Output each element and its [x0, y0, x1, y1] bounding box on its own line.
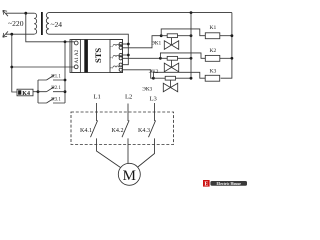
- node dot line2: [10, 33, 13, 36]
- svg-text:3: 3: [110, 67, 114, 69]
- wire K2 right: [220, 57, 232, 59]
- wire L1 down: [96, 103, 98, 121]
- relay K2: [205, 55, 220, 61]
- relay K3: [205, 75, 220, 81]
- rail 24V mid vertical: [190, 13, 192, 79]
- svg-text:K2: K2: [210, 48, 217, 54]
- valve EK1 bowtie: [164, 41, 178, 50]
- wire L1 lower: [97, 138, 121, 167]
- terminal arrow bottom ~220: [3, 31, 8, 37]
- node dot right bus row2: [64, 90, 67, 93]
- wire L3 down: [154, 103, 156, 121]
- valve EK1 stem: [171, 38, 173, 45]
- node dot EK2 junction: [159, 57, 162, 60]
- node dot EK3 rail: [190, 77, 193, 80]
- node dot EK2 rail: [190, 57, 193, 60]
- wire K1 right: [220, 35, 232, 37]
- wire EK2 right to rail: [178, 57, 192, 59]
- output 1 terminal circles: [119, 42, 122, 45]
- STS box: [70, 40, 123, 73]
- wire EK3 bypass to K3: [153, 72, 205, 78]
- svg-text:Electric House: Electric House: [217, 182, 242, 186]
- node dot EK3 junction: [152, 77, 155, 80]
- wire STS out2 to EK2: [123, 57, 161, 59]
- wire 220 line2 bottom: [6, 33, 34, 35]
- node dot right bus row1: [64, 79, 67, 82]
- output unit 1 coil: [113, 44, 122, 46]
- contact K4.2 blade: [122, 120, 129, 137]
- node dot STS common 2: [127, 54, 130, 57]
- svg-text:K3.1: K3.1: [51, 97, 61, 102]
- output unit 3 coil: [113, 66, 122, 68]
- node dot rail191 top: [190, 11, 193, 14]
- valve EK2 stem: [171, 60, 173, 67]
- relay K4 box: [17, 89, 33, 96]
- node dot K1 rail: [231, 34, 234, 37]
- wire EK3 left: [153, 77, 165, 79]
- output 2 terminal circles: [119, 53, 122, 56]
- wire EK1 right to rail: [178, 35, 192, 37]
- wire 220 line1 drop to STS A-input: [26, 13, 75, 42]
- wire STS A-bottom to line2: [12, 66, 75, 68]
- valve EK3 bowtie: [163, 83, 177, 92]
- svg-text:K3: K3: [210, 68, 217, 74]
- wire 24V top long to right: [49, 12, 232, 14]
- contact K2.1: [38, 87, 65, 92]
- svg-text:E: E: [204, 182, 208, 188]
- wire stub common2: [123, 54, 129, 56]
- output 3 terminal circles: [119, 63, 122, 66]
- wire EK3 right to rail: [176, 77, 192, 79]
- svg-text:ЭК1: ЭК1: [151, 41, 161, 47]
- wire EK2 bypass to K2: [160, 53, 205, 58]
- terminal circle A top: [74, 41, 78, 45]
- motor M circle: [118, 163, 140, 185]
- node dot STS common 1: [127, 43, 130, 46]
- svg-text:L1: L1: [94, 93, 101, 100]
- contact K4.3 blade: [149, 120, 156, 137]
- STS A-column: [72, 40, 81, 73]
- node dot at contacts bus top: [64, 40, 67, 43]
- svg-text:STS: STS: [93, 48, 103, 63]
- solenoid EK1: [167, 34, 177, 38]
- wire L2 down: [127, 104, 129, 122]
- wire L2 lower: [127, 138, 129, 163]
- wire EK1 left: [161, 35, 167, 37]
- svg-text:ЭК3: ЭК3: [142, 87, 152, 93]
- terminal circle A bottom: [74, 65, 78, 69]
- K4 inner bar: [18, 90, 21, 94]
- contacts right bus: [64, 42, 66, 103]
- transformer T1 primary coil: [34, 13, 36, 34]
- svg-text:K1: K1: [210, 25, 217, 31]
- rail 24V right vertical: [221, 13, 232, 79]
- svg-text:1: 1: [110, 46, 114, 48]
- svg-text:K4.2: K4.2: [111, 128, 123, 134]
- wire K4 right: [33, 91, 38, 93]
- svg-text:K4.1: K4.1: [80, 128, 92, 134]
- logo dark bar Electric House: [210, 181, 247, 186]
- node dot EK1 rail: [190, 34, 193, 37]
- svg-text:K4.3: K4.3: [138, 128, 150, 134]
- transformer core: [41, 12, 43, 35]
- contacts left bus: [37, 80, 39, 103]
- node dot line1: [24, 12, 27, 15]
- svg-text:K1.1: K1.1: [51, 74, 61, 79]
- svg-text:A1 A2: A1 A2: [74, 49, 80, 63]
- svg-text:~220: ~220: [8, 19, 24, 28]
- logo red square E: [203, 180, 210, 187]
- contact K1.1: [38, 75, 65, 80]
- wire STS out3 to EK3: [123, 70, 154, 78]
- node dot A-bottom branch: [10, 66, 13, 69]
- svg-text:K2.1: K2.1: [51, 86, 61, 91]
- valve EK2 bowtie: [164, 63, 178, 72]
- svg-text:K4: K4: [22, 91, 30, 97]
- svg-text:2: 2: [110, 57, 114, 59]
- wire STS out1 to EK1: [123, 36, 162, 48]
- wire EK1 bypass to K1: [161, 29, 205, 36]
- STS output column: [110, 40, 123, 73]
- svg-text:~24: ~24: [51, 20, 63, 29]
- svg-text:L3: L3: [150, 95, 158, 102]
- node dot EK1 junction: [160, 34, 163, 37]
- solenoid EK3: [165, 76, 175, 80]
- STS internal bar: [84, 40, 88, 73]
- wire EK2 left: [160, 57, 167, 59]
- node dot K2 rail: [231, 57, 234, 60]
- wire L3 lower: [138, 138, 155, 167]
- valve EK3 stem: [170, 80, 172, 87]
- dashed motor box: [71, 112, 174, 145]
- transformer T1 secondary coil: [46, 13, 49, 35]
- wire 220 line2 drop to K4: [12, 34, 17, 92]
- wire 24V bottom to STS common: [49, 34, 128, 64]
- svg-text:L2: L2: [125, 93, 132, 100]
- terminal arrow top ~220: [3, 10, 8, 16]
- contact K3.1: [38, 98, 65, 103]
- contact K4.1 blade: [91, 120, 98, 137]
- wire stub common1: [123, 43, 129, 45]
- wire 220 line1 top: [6, 12, 34, 14]
- output unit 2 coil: [113, 55, 122, 57]
- node dot K4 bus: [37, 90, 40, 93]
- relay K1: [205, 33, 220, 39]
- solenoid EK2: [167, 56, 177, 60]
- svg-text:M: M: [123, 168, 136, 184]
